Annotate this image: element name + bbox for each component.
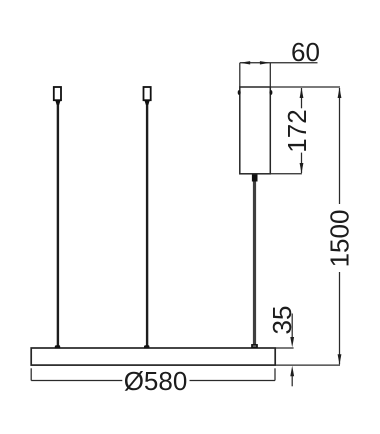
svg-text:172: 172 <box>282 109 312 152</box>
svg-text:Ø580: Ø580 <box>124 366 188 396</box>
svg-text:60: 60 <box>291 37 320 67</box>
svg-text:35: 35 <box>267 306 297 335</box>
svg-text:1500: 1500 <box>325 210 355 268</box>
